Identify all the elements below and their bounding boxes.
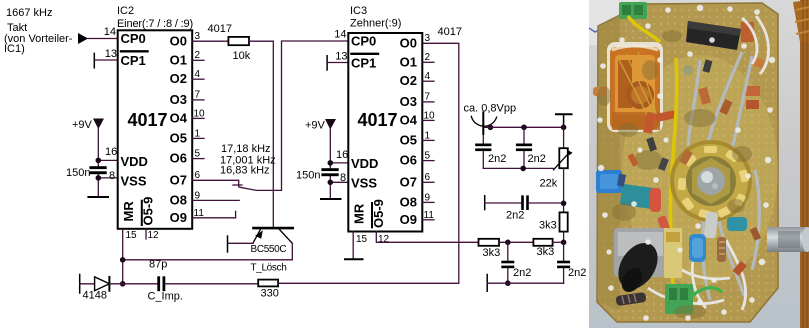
wire: 10k to T_Loesch collector line [249, 41, 273, 228]
svg-text:22k: 22k [540, 178, 558, 190]
svg-text:BC550C: BC550C [251, 244, 287, 255]
svg-text:Einer(:7 / :8 / :9): Einer(:7 / :8 / :9) [117, 18, 193, 30]
svg-text:VDD: VDD [351, 156, 378, 171]
svg-text:1667 kHz: 1667 kHz [6, 7, 52, 19]
svg-text:87p: 87p [149, 259, 167, 271]
diode D1 4148 [83, 277, 110, 302]
svg-text:O5: O5 [400, 132, 417, 147]
svg-text:IC3: IC3 [350, 5, 367, 17]
wire: first RC node down to cap [507, 242, 509, 260]
svg-text:Zehner(:9): Zehner(:9) [350, 18, 401, 30]
svg-text:14: 14 [104, 26, 116, 38]
frequency options text [220, 143, 276, 177]
svg-text:+9V: +9V [305, 120, 326, 132]
IC2 unconnected output pin stubs O1-O5 [192, 60, 204, 158]
selector contact crossbar [233, 184, 242, 186]
node: junction MR/emitter [120, 257, 126, 263]
photo potentiometer with knob [614, 228, 667, 277]
node: junction dot at ground wire [505, 280, 511, 286]
svg-text:10k: 10k [233, 50, 251, 62]
svg-text:3: 3 [195, 31, 201, 42]
svg-text:4017: 4017 [358, 110, 398, 130]
wire: second cap top lead [523, 127, 525, 143]
resistor R330 [258, 280, 279, 300]
svg-text:CP1: CP1 [121, 53, 146, 68]
wire: VSS tap to IC3 pin 8 [330, 181, 348, 183]
svg-text:VDD: VDD [121, 154, 148, 169]
svg-text:3k3: 3k3 [537, 246, 555, 258]
svg-text:3k3: 3k3 [539, 220, 557, 232]
wire: IC2 O8 pin 9 stub [192, 199, 239, 201]
photo rotary switch [670, 140, 752, 222]
svg-text:16: 16 [336, 149, 348, 161]
node: junction dot at pot top [561, 125, 567, 131]
wire: IC3 pin 15 to ground [352, 232, 354, 260]
svg-text:O4: O4 [400, 112, 418, 127]
svg-text:3k3: 3k3 [483, 247, 501, 259]
SCHEMATIC PART 3 : output filter network [464, 103, 587, 292]
wire: base of BC550C to terminal [228, 242, 253, 244]
wire: IC2 pin 15 vertical [122, 229, 124, 284]
ground (IC2 decoupling) [88, 196, 108, 198]
IC U2 label [117, 5, 193, 30]
wire: BC550C emitter down to MR net [291, 243, 293, 259]
terminal: ground wire left [486, 275, 488, 292]
capacitor C_Imp 87p [148, 259, 183, 303]
photo green terminal block bottom [665, 284, 693, 314]
svg-text:15: 15 [356, 234, 368, 245]
terminal: middle cap left [484, 196, 486, 210]
node: VSS junction dot (IC2) [96, 175, 102, 181]
wire: VDD tap to IC2 pin 16 [98, 159, 117, 161]
svg-text:O8: O8 [170, 192, 187, 207]
capacitor C 2n2 (second, filter) [516, 144, 546, 166]
node: junction dot middle cap / pot [561, 201, 567, 207]
probe arc at output node [471, 116, 496, 126]
svg-text:4017: 4017 [208, 23, 232, 35]
terminal: reset input line left [79, 275, 81, 294]
wire: arrow to IC2 CP0 pin 14 [88, 38, 118, 40]
svg-text:VSS: VSS [121, 174, 147, 189]
svg-text:150n: 150n [296, 170, 320, 182]
svg-text:O9: O9 [170, 210, 187, 225]
wire: shunt cap to ground wire [507, 268, 509, 283]
svg-text:12: 12 [378, 234, 390, 245]
svg-text:6: 6 [425, 172, 431, 183]
wire: terminal to middle cap [485, 202, 522, 204]
capacitor 2n2 (series middle) [506, 195, 529, 221]
svg-text:2n2: 2n2 [513, 267, 531, 279]
svg-text:O5: O5 [170, 130, 187, 145]
wire: IC3 pin 12 to filter network [376, 232, 478, 243]
svg-text:CP0: CP0 [121, 31, 146, 46]
wire: middle cap to pot bottom node [529, 202, 564, 204]
svg-text:ca. 0,8Vpp: ca. 0,8Vpp [464, 103, 517, 115]
resistor 3k3 (vertical) [539, 212, 568, 231]
node: VDD junction dot (IC3) [328, 160, 334, 166]
IC3 unconnected output pin stubs [422, 62, 434, 220]
SCHEMATIC PART 2 : IC3 [296, 5, 479, 259]
svg-text:2n2: 2n2 [568, 267, 586, 279]
svg-text:2n2: 2n2 [528, 153, 546, 165]
wire: output node horizontal [483, 126, 563, 128]
svg-text:O5-9: O5-9 [371, 199, 386, 228]
svg-text:7: 7 [195, 90, 201, 101]
IC U3 label [350, 5, 401, 30]
input signal arrow (Takt) [78, 33, 88, 44]
capacitor 150n (IC3 decoupling) [296, 168, 339, 181]
svg-text:7: 7 [425, 92, 431, 103]
node: junction dot at second RC node [561, 240, 567, 246]
wire: +9V to VDD node (IC3) [329, 129, 331, 169]
svg-text:14: 14 [334, 29, 346, 41]
photo background [589, 0, 809, 328]
wire: 330 to IC3 O0 [278, 43, 459, 283]
svg-text:3: 3 [425, 33, 431, 44]
svg-text:O3: O3 [400, 94, 417, 109]
wire: filter bottom horizontal [483, 167, 553, 169]
wire: selector wiper to IC3 CP0 [240, 41, 349, 190]
terminal CP1 IC3 [326, 56, 328, 70]
wire: IC2 O7 pin 6 to selector contact [192, 180, 239, 186]
svg-text:IC1): IC1) [4, 43, 25, 55]
node: junction MR/C_Imp [120, 281, 126, 287]
resistor 3k3 (first horizontal) [479, 239, 501, 259]
wire: second RC node down to cap [563, 242, 565, 260]
svg-text:O2: O2 [170, 71, 187, 86]
svg-text:O6: O6 [400, 153, 417, 168]
wire: C_Imp to resistor 330 [165, 283, 258, 285]
svg-text:13: 13 [335, 51, 347, 63]
svg-text:O6: O6 [170, 151, 187, 166]
svg-text:T_Lösch: T_Lösch [251, 263, 287, 274]
wire: CP1 terminal to IC2 pin 13 [94, 59, 117, 61]
svg-text:O7: O7 [400, 174, 417, 189]
svg-text:2n2: 2n2 [506, 210, 524, 222]
wire: pot bottom lead down [563, 168, 565, 212]
wire: VSS node down to ground (IC3) [329, 177, 331, 200]
svg-text:CP0: CP0 [351, 34, 376, 49]
wire: ground horizontal [487, 282, 563, 284]
svg-text:O1: O1 [400, 54, 417, 69]
svg-text:16: 16 [105, 146, 117, 158]
svg-text:5: 5 [195, 149, 201, 160]
svg-text:8: 8 [109, 170, 115, 182]
capacitor 2n2 (second shunt) [557, 261, 586, 279]
svg-text:O1: O1 [170, 52, 187, 67]
svg-text:O5-9: O5-9 [141, 197, 156, 226]
svg-text:C_Imp.: C_Imp. [148, 291, 183, 303]
wire: between 3k3 resistors [499, 241, 533, 243]
svg-text:+9V: +9V [72, 119, 93, 131]
svg-text:6: 6 [195, 170, 201, 181]
ground (IC3 pin 15) [345, 258, 363, 260]
svg-text:2: 2 [425, 52, 431, 63]
svg-text:2: 2 [195, 50, 201, 61]
svg-text:4017: 4017 [438, 26, 462, 38]
probe stem thick mark [482, 113, 484, 135]
wire: IC2 O9 pin 11 stub [192, 211, 235, 217]
svg-text:MR: MR [352, 203, 367, 224]
svg-text:16,83 kHz: 16,83 kHz [220, 165, 270, 177]
op-amp: none / counter IC2 4017 body [118, 30, 193, 229]
svg-text:12: 12 [148, 230, 160, 241]
capacitor C 2n2 (first, filter) [475, 144, 506, 166]
resistor 10k (4017 label) [208, 23, 251, 62]
svg-text:4148: 4148 [83, 290, 107, 302]
power +9V (IC2) [72, 119, 104, 132]
node: VSS junction dot (IC3) [328, 180, 334, 186]
counter IC3 4017 body [348, 33, 422, 232]
svg-text:15: 15 [126, 230, 138, 241]
wire: IC2 O0 pin 3 to resistor 10k [192, 40, 228, 42]
node: junction dot at first RC node [505, 240, 511, 246]
node: junction dot cap2 top [521, 125, 527, 131]
svg-text:8: 8 [340, 172, 346, 184]
svg-text:330: 330 [261, 288, 279, 300]
wire: CP1 terminal to IC3 pin 13 [327, 62, 348, 64]
IC3 right pin numbers [424, 33, 436, 221]
svg-text:13: 13 [105, 48, 117, 60]
power +9V (IC3) [305, 119, 336, 132]
wire: VDD tap to IC3 pin 16 [330, 162, 348, 164]
svg-text:O2: O2 [400, 73, 417, 88]
PHOTO [589, 0, 809, 328]
node: junction dot cap2 bottom [520, 166, 526, 172]
svg-text:CP1: CP1 [351, 56, 376, 71]
ground (IC3 decoupling) [321, 198, 341, 200]
wire: 3k3 vertical to pin12 net [563, 232, 565, 243]
photo metal rod [767, 227, 809, 252]
wire: second 3k3 to vertical node [553, 241, 564, 243]
svg-text:O7: O7 [170, 172, 187, 187]
wire: IC2 pin 12 stub [145, 229, 147, 239]
svg-text:4: 4 [195, 69, 201, 80]
wire: diode to junction [109, 283, 157, 285]
svg-text:17,18 kHz: 17,18 kHz [221, 143, 271, 155]
svg-text:O3: O3 [170, 92, 187, 107]
wire: VSS tap to IC2 pin 8 [98, 177, 117, 179]
svg-text:O4: O4 [170, 110, 188, 125]
svg-text:MR: MR [121, 201, 136, 222]
node: probe junction dot [488, 125, 494, 131]
photo perfboard [597, 3, 778, 322]
capacitor 150n (IC2 decoupling) [66, 166, 107, 179]
svg-text:150n: 150n [66, 167, 90, 179]
wire: output node left lead down to cap [482, 116, 484, 144]
node: VDD junction dot (IC2) [96, 158, 102, 164]
terminal: BC550C base [227, 236, 229, 252]
svg-text:5: 5 [425, 151, 431, 162]
resistor 3k3 (second horizontal) [533, 239, 554, 258]
wire: second cap bottom lead [523, 151, 525, 168]
wire: +9V to VDD node (IC2) [97, 128, 99, 166]
svg-text:IC2: IC2 [117, 5, 134, 17]
svg-text:4: 4 [425, 71, 431, 82]
wire: second shunt cap to ground wire [563, 268, 565, 283]
wire: VSS node down to ground (IC2) [97, 175, 99, 198]
photo green terminal block top [619, 2, 647, 19]
node: 1667 kHz clock input label [4, 7, 73, 55]
wire: terminal to diode [80, 283, 95, 285]
svg-text:O0: O0 [170, 33, 187, 48]
photo relay orange [607, 42, 663, 132]
IC2 right pin numbers [194, 31, 206, 219]
potentiometer 22k [540, 127, 573, 189]
wire: first cap bottom lead [482, 151, 484, 168]
terminal: output top T [556, 114, 572, 127]
svg-text:O9: O9 [400, 212, 417, 227]
svg-text:O8: O8 [400, 194, 417, 209]
svg-text:VSS: VSS [351, 176, 377, 191]
svg-text:O0: O0 [400, 35, 417, 50]
capacitor 2n2 (first shunt) [501, 261, 531, 279]
transistor Q1 BC550C T_Loesch [251, 228, 293, 273]
svg-text:4017: 4017 [128, 110, 168, 130]
svg-text:2n2: 2n2 [488, 153, 506, 165]
terminal CP1 IC2 [93, 53, 95, 67]
wire: MR net horizontal (IC2 pin15 to emitter) [123, 259, 293, 261]
photo black IC [686, 21, 741, 50]
